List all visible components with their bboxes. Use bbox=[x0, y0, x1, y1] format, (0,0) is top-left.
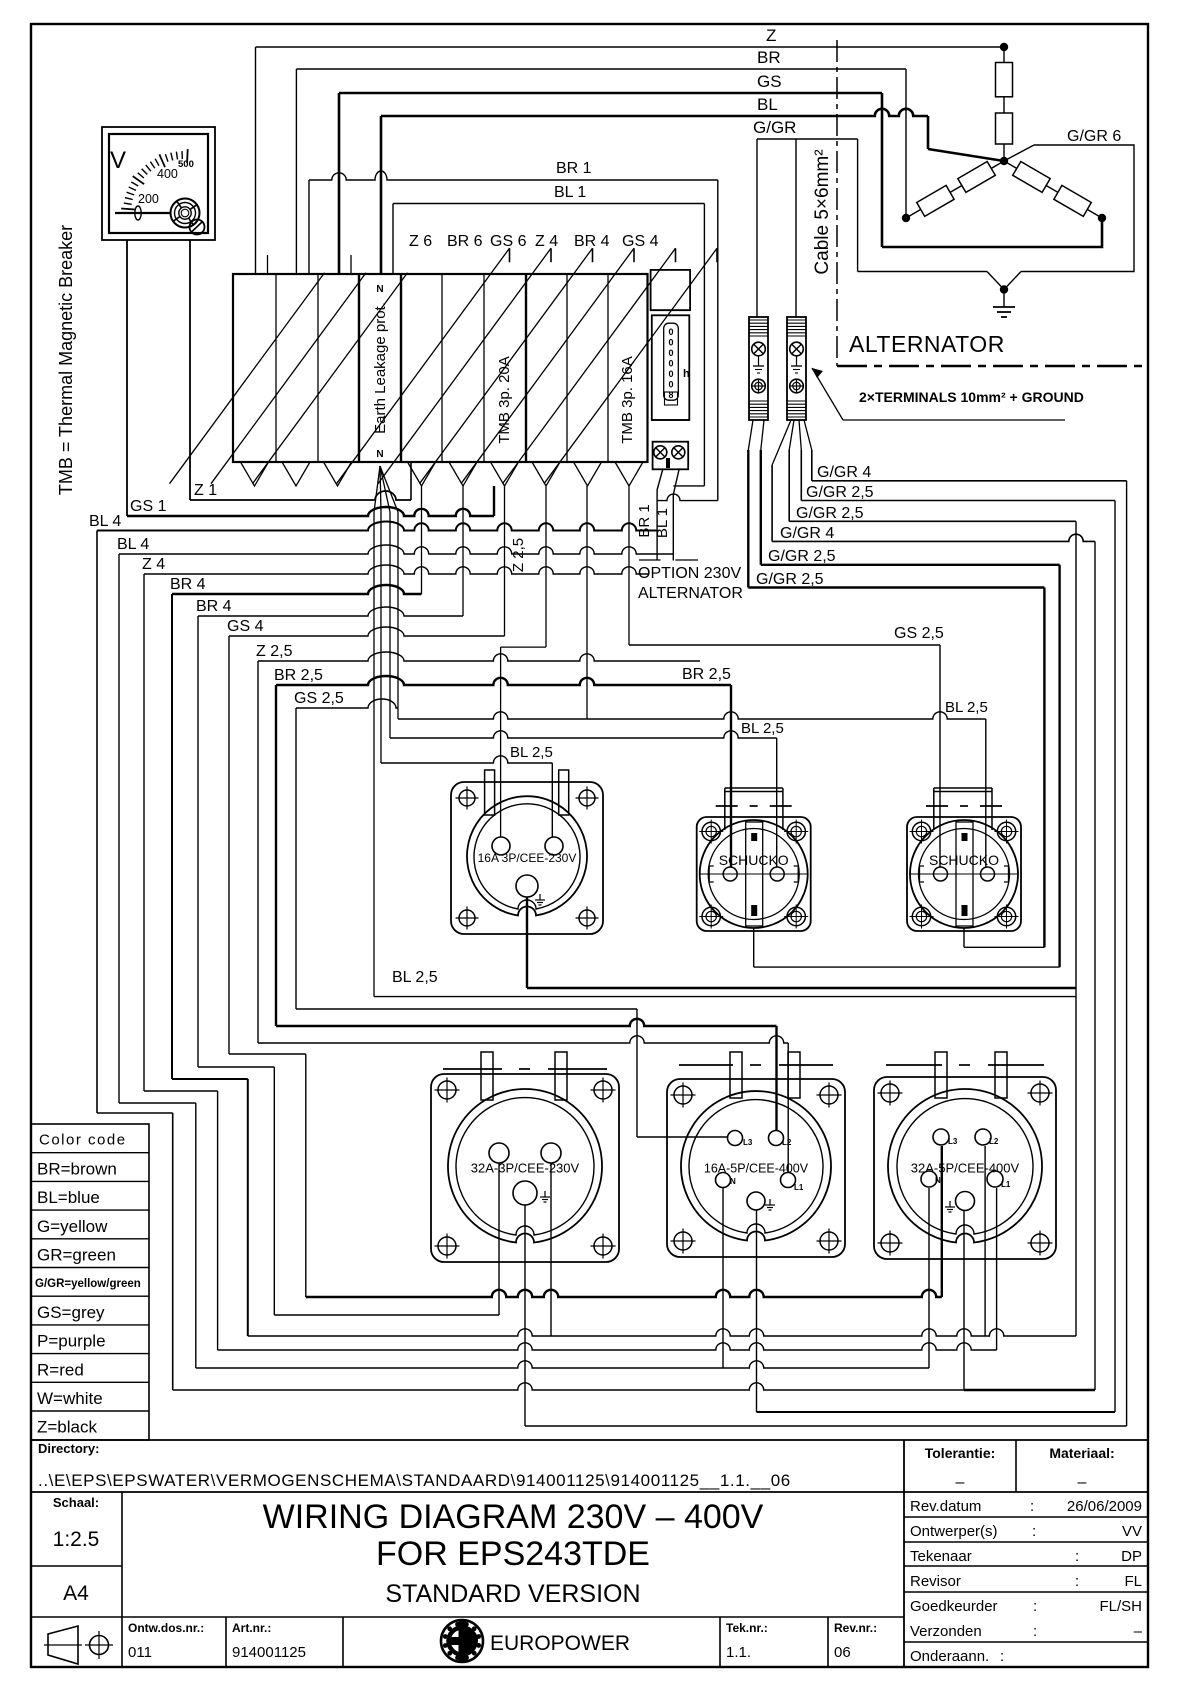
svg-text:–: – bbox=[1078, 1474, 1087, 1491]
svg-text:8: 8 bbox=[668, 390, 673, 400]
svg-text:16A-5P/CEE-400V: 16A-5P/CEE-400V bbox=[704, 1161, 809, 1175]
svg-text:BR 2,5: BR 2,5 bbox=[274, 667, 323, 684]
svg-text:OPTION 230V: OPTION 230V bbox=[638, 565, 741, 582]
svg-text::: : bbox=[1033, 1598, 1037, 1615]
svg-text:Schaal:: Schaal: bbox=[53, 1495, 99, 1510]
svg-text:DP: DP bbox=[1121, 1548, 1142, 1565]
svg-text:G/GR: G/GR bbox=[753, 118, 796, 137]
svg-text:BR 1: BR 1 bbox=[636, 504, 653, 537]
svg-text:BR 6: BR 6 bbox=[447, 233, 483, 250]
svg-text:GS 4: GS 4 bbox=[227, 618, 264, 635]
svg-text:G/GR=yellow/green: G/GR=yellow/green bbox=[35, 1278, 141, 1290]
svg-text:N: N bbox=[376, 449, 383, 460]
svg-text:GS: GS bbox=[757, 72, 782, 91]
svg-text:06: 06 bbox=[834, 1644, 851, 1661]
svg-text:Tolerantie:: Tolerantie: bbox=[925, 1445, 996, 1461]
svg-text:G/GR 4: G/GR 4 bbox=[780, 525, 834, 542]
svg-text:BL 2,5: BL 2,5 bbox=[392, 969, 438, 986]
svg-text:h: h bbox=[683, 368, 690, 380]
svg-text:32A-5P/CEE-400V: 32A-5P/CEE-400V bbox=[911, 1161, 1020, 1176]
svg-text:0: 0 bbox=[668, 338, 673, 348]
svg-text:BL 2,5: BL 2,5 bbox=[741, 720, 784, 737]
svg-text:N: N bbox=[935, 1176, 941, 1185]
svg-text:BL 4: BL 4 bbox=[89, 513, 121, 530]
svg-text:Onderaann.: Onderaann. bbox=[910, 1648, 989, 1665]
svg-text:BL 1: BL 1 bbox=[654, 508, 671, 538]
svg-text:0: 0 bbox=[668, 348, 673, 358]
svg-text:L3: L3 bbox=[948, 1137, 958, 1146]
svg-text:Cable 5×6mm²: Cable 5×6mm² bbox=[812, 149, 833, 274]
svg-text:BR 4: BR 4 bbox=[574, 233, 610, 250]
svg-text:1.1.: 1.1. bbox=[726, 1644, 751, 1661]
svg-text:0: 0 bbox=[668, 369, 673, 379]
svg-text:G/GR 2,5: G/GR 2,5 bbox=[806, 484, 874, 501]
svg-text:–: – bbox=[956, 1474, 965, 1491]
svg-text:STANDARD VERSION: STANDARD VERSION bbox=[385, 1580, 640, 1608]
svg-text:G/GR 2,5: G/GR 2,5 bbox=[796, 505, 864, 522]
svg-text:32A-3P/CEE-230V: 32A-3P/CEE-230V bbox=[471, 1161, 580, 1176]
svg-text:BL=blue: BL=blue bbox=[37, 1188, 100, 1207]
svg-text:BR=brown: BR=brown bbox=[37, 1159, 117, 1178]
svg-text:Z 4: Z 4 bbox=[142, 556, 165, 573]
svg-text:1:2.5: 1:2.5 bbox=[53, 1528, 100, 1551]
svg-text:G/GR 4: G/GR 4 bbox=[817, 464, 871, 481]
svg-text:L1: L1 bbox=[1001, 1180, 1011, 1189]
svg-text:Tek.nr.:: Tek.nr.: bbox=[726, 1621, 768, 1635]
svg-text:EUROPOWER: EUROPOWER bbox=[490, 1632, 630, 1655]
svg-text:V: V bbox=[110, 147, 126, 174]
svg-text:200: 200 bbox=[138, 192, 159, 206]
svg-text:W=white: W=white bbox=[37, 1389, 103, 1408]
svg-text:500: 500 bbox=[178, 159, 194, 170]
svg-text:BL 1: BL 1 bbox=[554, 184, 586, 201]
svg-text:GS 6: GS 6 bbox=[490, 233, 527, 250]
svg-text:GR=green: GR=green bbox=[37, 1246, 116, 1265]
svg-text:L2: L2 bbox=[782, 1138, 792, 1147]
svg-text:ALTERNATOR: ALTERNATOR bbox=[849, 331, 1005, 357]
svg-text:N: N bbox=[730, 1177, 736, 1186]
svg-text:Rev.nr.:: Rev.nr.: bbox=[834, 1621, 877, 1635]
svg-text:Z 2,5: Z 2,5 bbox=[256, 643, 293, 660]
svg-text:011: 011 bbox=[128, 1644, 152, 1661]
svg-text:G/GR 2,5: G/GR 2,5 bbox=[768, 548, 836, 565]
svg-text:BL 4: BL 4 bbox=[117, 536, 149, 553]
svg-text:GS 2,5: GS 2,5 bbox=[294, 690, 344, 707]
svg-text::: : bbox=[1000, 1648, 1004, 1665]
svg-text:Directory:: Directory: bbox=[38, 1441, 99, 1456]
svg-text:Z: Z bbox=[766, 26, 776, 45]
svg-text:0: 0 bbox=[668, 380, 673, 390]
svg-text:GS 4: GS 4 bbox=[622, 233, 659, 250]
svg-text::: : bbox=[1075, 1548, 1079, 1565]
svg-text::: : bbox=[1033, 1623, 1037, 1640]
svg-text:0: 0 bbox=[668, 327, 673, 337]
svg-text:ALTERNATOR: ALTERNATOR bbox=[638, 585, 743, 602]
svg-text:Goedkeurder: Goedkeurder bbox=[910, 1598, 998, 1615]
svg-text:P=purple: P=purple bbox=[37, 1332, 106, 1351]
svg-text:Z 1: Z 1 bbox=[194, 482, 217, 499]
svg-text:Z 4: Z 4 bbox=[535, 233, 558, 250]
svg-text:N: N bbox=[376, 284, 383, 295]
svg-text:GS 2,5: GS 2,5 bbox=[894, 625, 944, 642]
svg-text:FOR EPS243TDE: FOR EPS243TDE bbox=[376, 1535, 650, 1573]
svg-text:Color code: Color code bbox=[39, 1132, 127, 1149]
svg-text:L2: L2 bbox=[989, 1137, 999, 1146]
svg-text::: : bbox=[1075, 1573, 1079, 1590]
svg-text:TMB = Thermal Magnetic Breaker: TMB = Thermal Magnetic Breaker bbox=[56, 225, 76, 495]
svg-text:R=red: R=red bbox=[37, 1360, 84, 1379]
svg-text:VV: VV bbox=[1122, 1523, 1142, 1540]
svg-text:GS=grey: GS=grey bbox=[37, 1303, 105, 1322]
svg-text:BR 4: BR 4 bbox=[196, 598, 232, 615]
svg-text:16A 3P/CEE-230V: 16A 3P/CEE-230V bbox=[478, 851, 577, 865]
svg-text:400: 400 bbox=[157, 167, 178, 181]
svg-text:914001125: 914001125 bbox=[232, 1644, 306, 1661]
svg-text:BL 2,5: BL 2,5 bbox=[510, 744, 553, 761]
svg-text:Z 6: Z 6 bbox=[409, 233, 432, 250]
svg-text:BR: BR bbox=[757, 48, 781, 67]
svg-text:Revisor: Revisor bbox=[910, 1573, 961, 1590]
svg-text::: : bbox=[1030, 1498, 1034, 1515]
svg-text:L3: L3 bbox=[743, 1138, 753, 1147]
svg-text:WIRING DIAGRAM 230V – 400V: WIRING DIAGRAM 230V – 400V bbox=[263, 1498, 764, 1536]
svg-text:Z=black: Z=black bbox=[37, 1418, 97, 1437]
svg-text:G/GR 6: G/GR 6 bbox=[1067, 128, 1121, 145]
svg-text:0: 0 bbox=[668, 359, 673, 369]
svg-text:TMB 3p. 20A: TMB 3p. 20A bbox=[496, 356, 513, 444]
svg-text:FL: FL bbox=[1124, 1573, 1142, 1590]
svg-text:L1: L1 bbox=[794, 1183, 804, 1192]
svg-text:Ontwerper(s): Ontwerper(s) bbox=[910, 1523, 998, 1540]
svg-text:26/06/2009: 26/06/2009 bbox=[1067, 1498, 1142, 1515]
svg-text:BR 4: BR 4 bbox=[170, 576, 206, 593]
svg-text:..\E\EPS\EPSWATER\VERMOGENSCHE: ..\E\EPS\EPSWATER\VERMOGENSCHEMA\STANDAA… bbox=[38, 1471, 791, 1490]
svg-text:Materiaal:: Materiaal: bbox=[1049, 1445, 1114, 1461]
svg-text:Earth Leakage prot.: Earth Leakage prot. bbox=[372, 302, 389, 434]
svg-text:G=yellow: G=yellow bbox=[37, 1217, 108, 1236]
svg-text:G/GR 2,5: G/GR 2,5 bbox=[756, 571, 824, 588]
svg-text:Rev.datum: Rev.datum bbox=[910, 1498, 981, 1515]
svg-text:SCHUCKO: SCHUCKO bbox=[719, 852, 789, 868]
svg-text:Z 2,5: Z 2,5 bbox=[510, 538, 527, 572]
svg-text:FL/SH: FL/SH bbox=[1099, 1598, 1142, 1615]
svg-text:Ontw.dos.nr.:: Ontw.dos.nr.: bbox=[128, 1621, 204, 1635]
svg-text:BR 2,5: BR 2,5 bbox=[682, 666, 731, 683]
svg-text:SCHUCKO: SCHUCKO bbox=[929, 852, 999, 868]
svg-text:Tekenaar: Tekenaar bbox=[910, 1548, 972, 1565]
svg-text:GS 1: GS 1 bbox=[130, 498, 167, 515]
svg-text::: : bbox=[1032, 1523, 1036, 1540]
svg-text:–: – bbox=[1134, 1623, 1143, 1640]
svg-text:BL: BL bbox=[757, 95, 778, 114]
svg-text:A4: A4 bbox=[63, 1582, 89, 1605]
svg-text:BR 1: BR 1 bbox=[556, 160, 592, 177]
svg-text:Verzonden: Verzonden bbox=[910, 1623, 982, 1640]
svg-text:Art.nr.:: Art.nr.: bbox=[232, 1621, 271, 1635]
svg-text:2×TERMINALS 10mm² + GROUND: 2×TERMINALS 10mm² + GROUND bbox=[859, 389, 1084, 405]
svg-text:BL 2,5: BL 2,5 bbox=[945, 699, 988, 716]
